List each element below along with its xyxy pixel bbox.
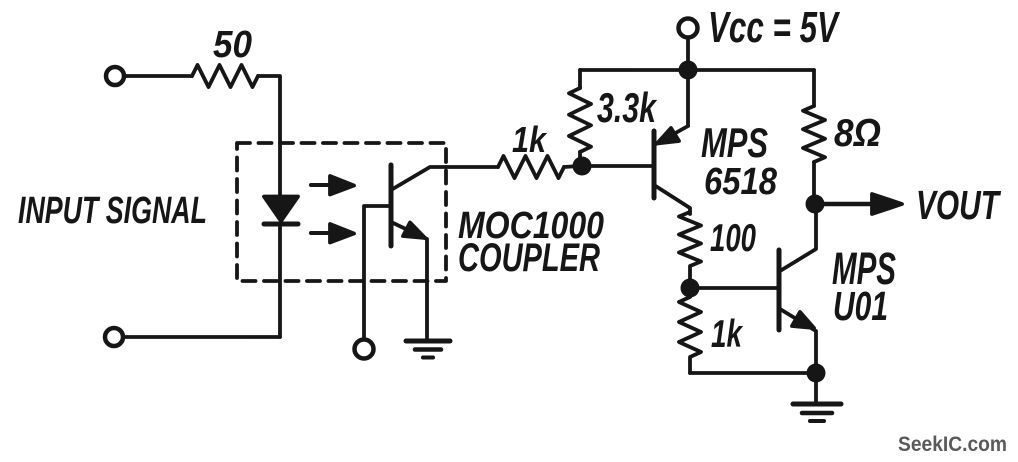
phototransistor Q3 base bar	[389, 165, 394, 246]
bottom wire to node C	[690, 371, 816, 375]
terminal Vcc	[679, 19, 698, 38]
wire R50 to LED anode	[258, 76, 280, 197]
svg-text:COUPLER: COUPLER	[458, 236, 600, 280]
transistor Q1 MPS6518 base bar	[652, 131, 657, 198]
node A	[573, 157, 592, 176]
transistor Q1 collector	[654, 185, 690, 214]
wire node B to Q2 base	[690, 286, 779, 290]
phototransistor Q3 collector	[391, 167, 446, 190]
svg-text:U01: U01	[833, 283, 888, 329]
transistor Q1 emitter (arrow toward bar)	[656, 70, 688, 144]
transistor Q2 collector	[780, 213, 816, 271]
wire T2 to LED cathode	[124, 335, 280, 339]
resistor 50	[192, 65, 258, 87]
svg-text:Vcc = 5V: Vcc = 5V	[708, 3, 841, 52]
svg-text:3.3k: 3.3k	[597, 84, 658, 131]
phototransistor Q3 emitter	[391, 222, 427, 340]
svg-text:VOUT: VOUT	[916, 182, 1001, 228]
svg-text:MPS: MPS	[701, 119, 768, 166]
resistor 8 ohm	[803, 70, 825, 204]
light arrow upper	[311, 176, 354, 195]
transistor Q2 MPSU01 base bar	[777, 250, 782, 330]
wire T1 to R50	[125, 74, 192, 78]
svg-text:100: 100	[710, 217, 756, 260]
svg-text:INPUT SIGNAL: INPUT SIGNAL	[18, 190, 207, 232]
node Vcc rail	[679, 61, 698, 80]
node B	[681, 279, 700, 298]
resistor 1k vertical	[679, 297, 701, 373]
optocoupler dashed box U1	[237, 143, 446, 281]
wire coupler to R 1k	[446, 165, 498, 169]
terminal T1 (top input)	[106, 67, 124, 85]
svg-text:SeekIC.com: SeekIC.com	[898, 433, 1007, 456]
LED D1	[264, 197, 298, 338]
ground G2	[793, 373, 841, 421]
svg-text:8Ω: 8Ω	[834, 112, 881, 155]
label MPS 6518	[701, 119, 778, 203]
light arrow lower	[311, 224, 354, 243]
resistor 1k horizontal	[498, 156, 564, 178]
Vout arrow	[824, 194, 902, 214]
top rail wire	[580, 68, 814, 72]
svg-text:1k: 1k	[512, 119, 548, 160]
svg-text:50: 50	[213, 24, 252, 66]
terminal base pin	[355, 340, 374, 359]
Vcc lead	[686, 38, 690, 62]
wire node A to Q1 base	[591, 164, 654, 168]
svg-text:1k: 1k	[711, 313, 744, 356]
svg-text:6518: 6518	[704, 161, 778, 203]
node C	[807, 364, 826, 383]
label MPS U01	[832, 243, 896, 329]
resistor 3.3k	[569, 70, 591, 160]
terminal T2 (bottom input)	[105, 328, 123, 346]
phototransistor Q3 base lead	[364, 206, 391, 340]
node Vout	[806, 195, 825, 214]
ground G1	[406, 341, 450, 358]
transistor Q2 emitter (arrow out)	[780, 309, 816, 373]
resistor 100	[679, 212, 701, 280]
label MOC1000 COUPLER	[458, 205, 604, 280]
wire R1k to node A	[564, 166, 580, 167]
